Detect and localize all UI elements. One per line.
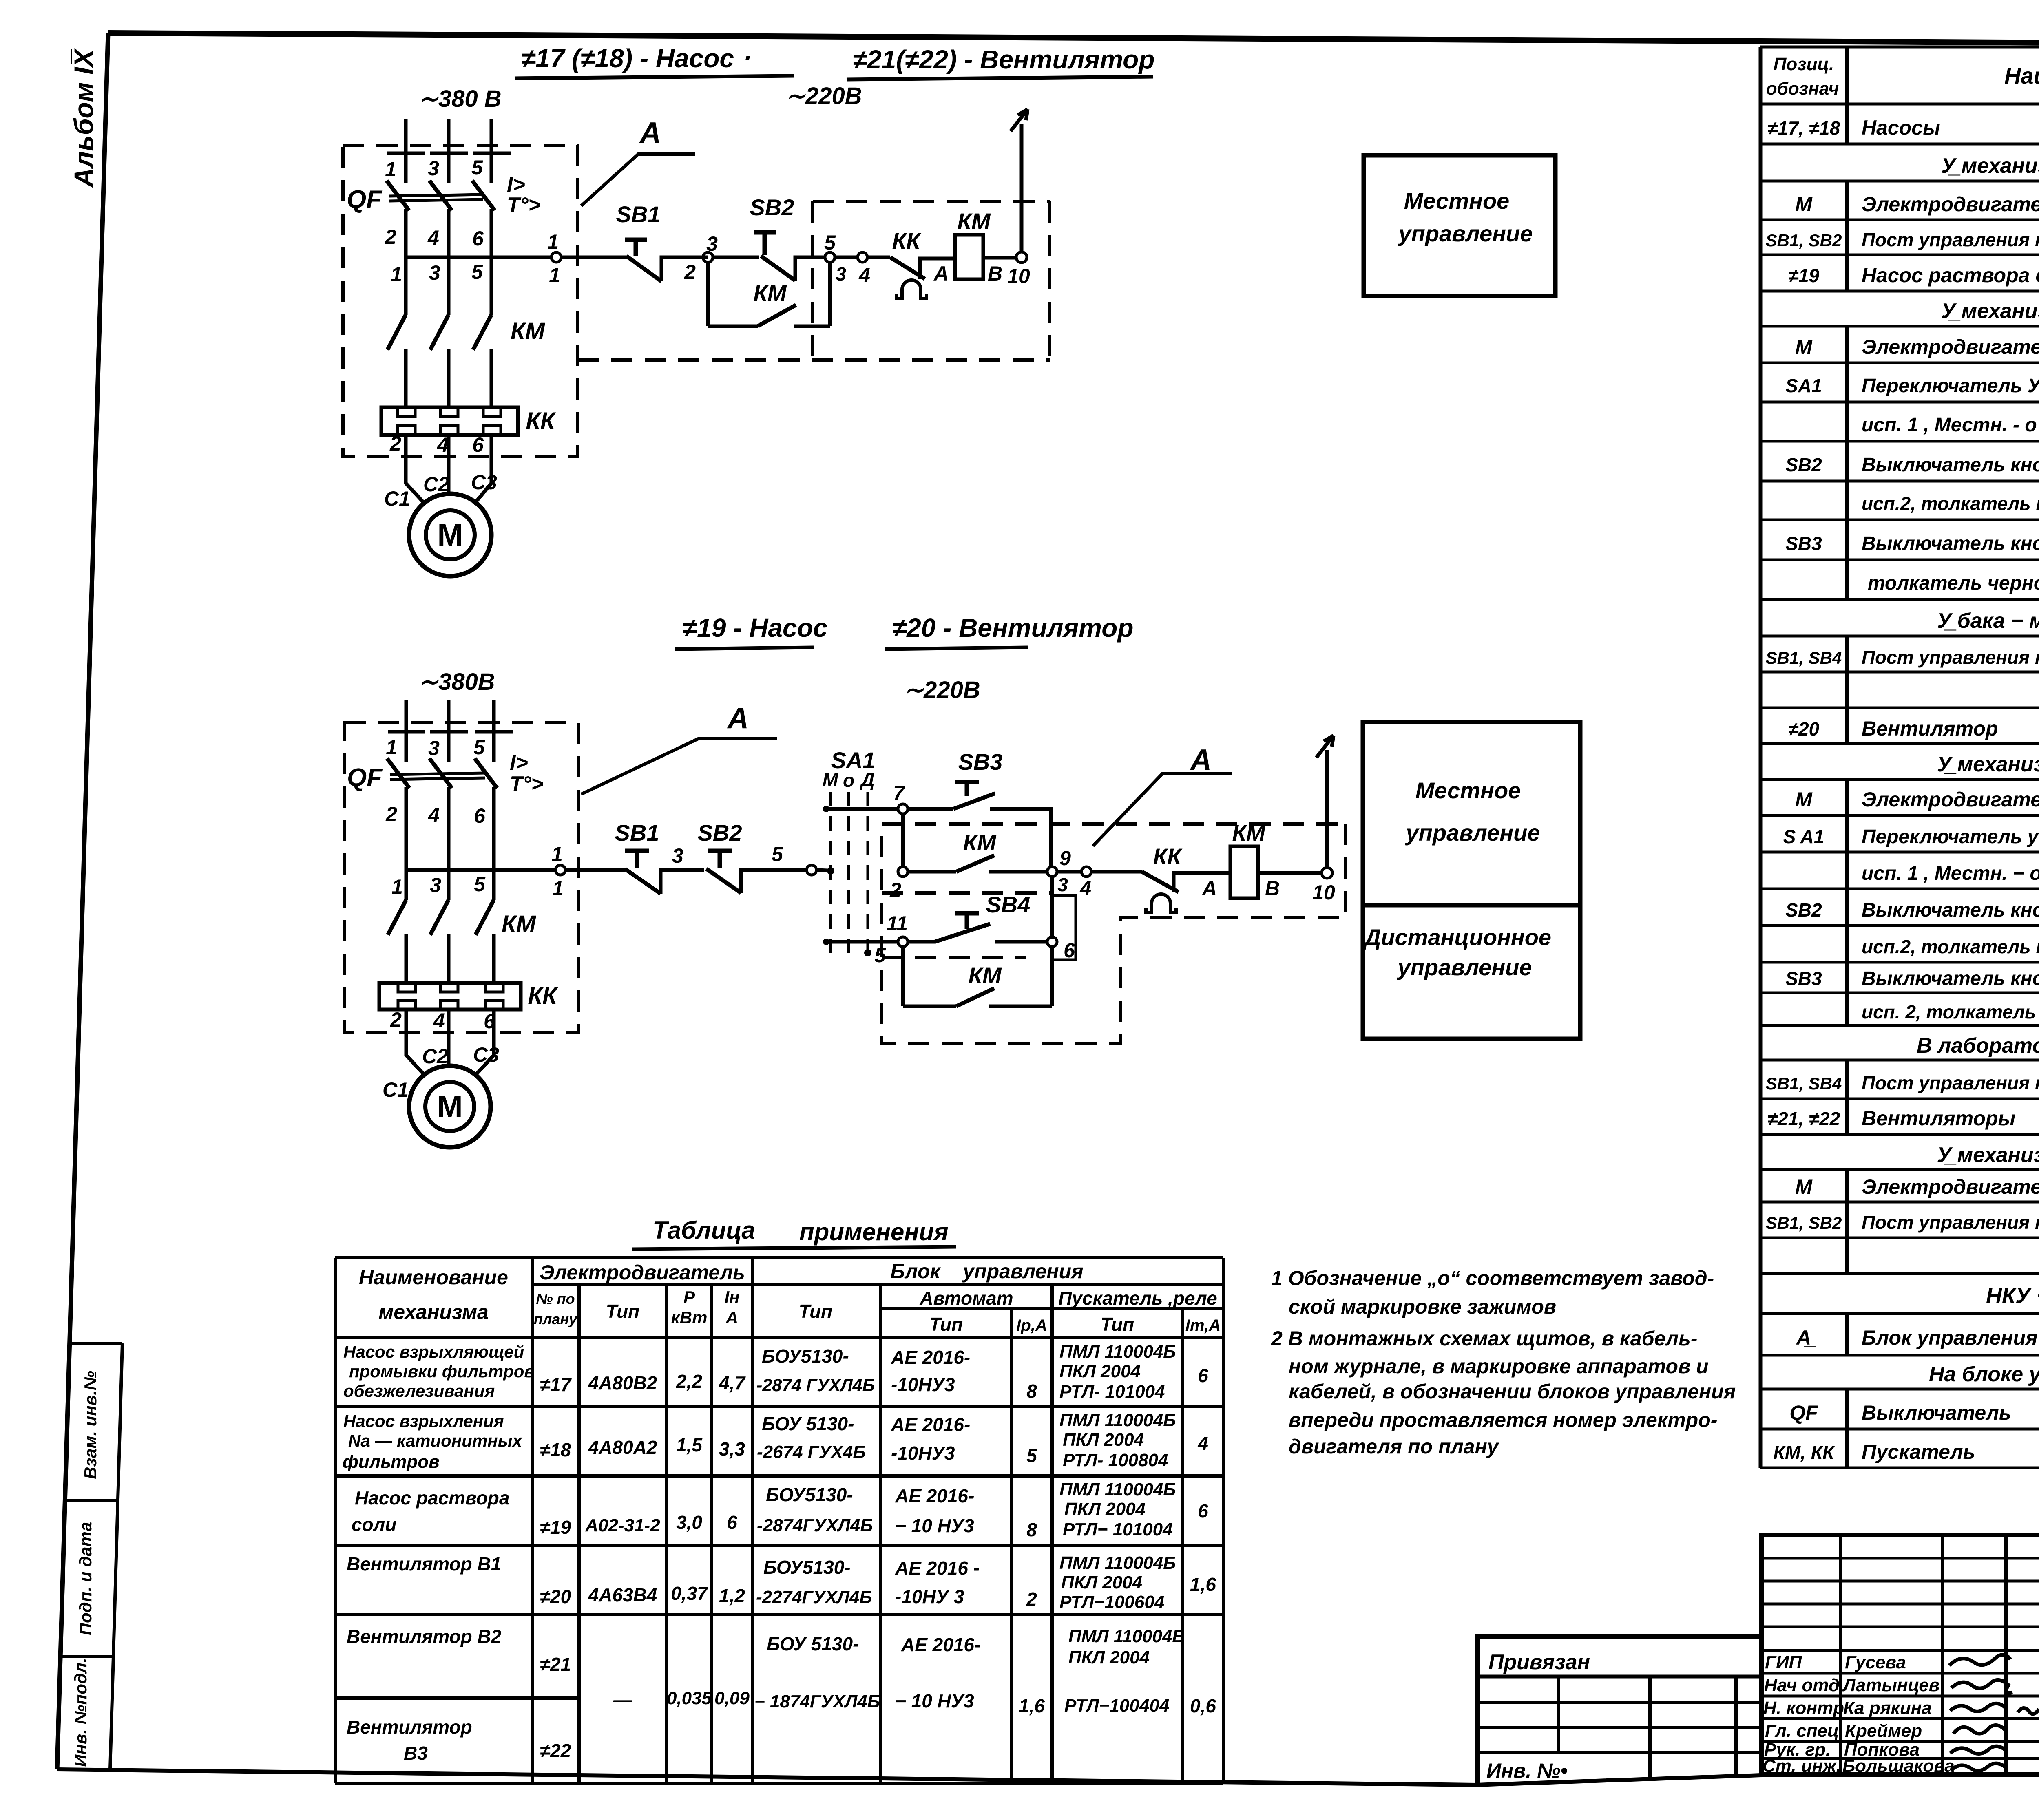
svg-text:3,3: 3,3 [719, 1438, 745, 1460]
svg-text:Пускатель: Пускатель [1862, 1440, 1975, 1463]
svg-text:5: 5 [1026, 1445, 1037, 1466]
svg-text:SB1, SВ2: SB1, SВ2 [1766, 1213, 1842, 1232]
circuit 2 motor lead C1 [406, 1009, 425, 1076]
circuit 2 thermal contact KK blade [1142, 872, 1179, 892]
circuit 2 title left underline [675, 647, 814, 649]
svg-text:У̲ механизма: У̲ механизма [1941, 154, 2039, 178]
circuit 2 contactor KM main contact L2 [430, 900, 449, 935]
svg-text:SB1, SB2: SB1, SB2 [1766, 231, 1842, 250]
circuit 2 node 4 circle [1081, 867, 1091, 877]
svg-text:А: А [1201, 877, 1217, 900]
circuit 1 contactor KM main contact L1 [387, 315, 406, 350]
privyazan first row line [1477, 1675, 1762, 1679]
svg-text:управление: управление [1398, 221, 1533, 246]
circuit 1 thermal contact KK release hook [896, 280, 927, 298]
svg-text:≠19: ≠19 [540, 1517, 571, 1538]
circuit 1 block label A leader line [581, 154, 695, 206]
svg-text:Электродвигатель: Электродвигатель [1862, 1175, 2039, 1198]
svg-text:2,2: 2,2 [676, 1371, 702, 1392]
svg-text:3: 3 [672, 844, 683, 867]
motor M2 inner circle [425, 1082, 474, 1131]
svg-text:SB2: SB2 [698, 820, 742, 846]
svg-text:SB1, SB4: SB1, SB4 [1766, 1074, 1842, 1093]
svg-text:фильтров: фильтров [343, 1452, 440, 1472]
circuit 1 neutral symbol N [1011, 109, 1028, 131]
svg-text:4: 4 [433, 1009, 445, 1032]
svg-text:Iр,А: Iр,А [1016, 1316, 1047, 1334]
circuit 1 node 4 circle [858, 252, 867, 262]
circuit 1 local control box [1364, 155, 1555, 296]
circuit 1 contactor KM main contact L2 [430, 315, 449, 350]
svg-text:≠20 - Вентилятор: ≠20 - Вентилятор [892, 613, 1133, 643]
svg-text:Таблица: Таблица [652, 1217, 755, 1244]
circuit 2 wire SB3 to corner [990, 809, 1051, 867]
svg-text:4А63В4: 4А63В4 [588, 1584, 657, 1606]
circuit 1 wire node5 to node4 [835, 256, 858, 259]
circuit 2 vertical bus node9 to node6 [1050, 877, 1054, 939]
svg-text:SB3: SB3 [958, 749, 1003, 775]
svg-text:КК: КК [1153, 844, 1183, 869]
svg-text:1,2: 1,2 [719, 1585, 745, 1606]
circuit 2 supply tap tick L2 [430, 730, 468, 734]
svg-text:исп. 1 , Местн. − о − Дист.: исп. 1 , Местн. − о − Дист. ” [1862, 863, 2039, 884]
svg-text:4А80А2: 4А80А2 [588, 1437, 657, 1458]
left column top divider [71, 1342, 122, 1345]
svg-text:Блок управления: Блок управления [1862, 1326, 2038, 1349]
svg-text:КМ: КМ [957, 208, 991, 234]
circuit 1 wire node1 to SB1 [561, 256, 628, 259]
circuit 2 motor lead C2 [447, 1009, 451, 1066]
svg-text:1,6: 1,6 [1190, 1574, 1216, 1595]
svg-text:10: 10 [1007, 265, 1030, 287]
svg-text:I>: I> [510, 751, 528, 775]
svg-text:Большакова: Большакова [1842, 1756, 1955, 1776]
selector switch SA1 dashed line M [829, 792, 832, 960]
svg-text:БОУ 5130-: БОУ 5130- [767, 1633, 859, 1654]
drawing frame border bottom [57, 1769, 2039, 1785]
svg-text:Наименование: Наименование [2004, 63, 2039, 88]
svg-text:управление: управление [1397, 954, 1532, 980]
svg-text:≠17: ≠17 [540, 1374, 572, 1395]
svg-text:0,09: 0,09 [714, 1688, 750, 1708]
circuit 2 phase wire L3 lower [492, 934, 496, 983]
svg-text:0,6: 0,6 [1190, 1695, 1216, 1716]
svg-text:2: 2 [1026, 1588, 1037, 1610]
svg-text:РТЛ− 101004: РТЛ− 101004 [1063, 1520, 1173, 1539]
svg-text:ном журнале, в маркировке ап: ном журнале, в маркировке аппаратов и [1289, 1355, 1709, 1378]
svg-text:В: В [988, 262, 1002, 285]
svg-text:В: В [1265, 877, 1280, 900]
circuit 2 node 1 circle [555, 865, 565, 875]
svg-text:ПМЛ 110004Б: ПМЛ 110004Б [1059, 1342, 1176, 1362]
svg-text:SB1: SB1 [616, 201, 661, 227]
svg-text:4: 4 [428, 804, 440, 826]
circuit 2 wire node7 to SB3 [908, 807, 953, 811]
svg-text:ПМЛ 110004Б: ПМЛ 110004Б [1068, 1626, 1185, 1646]
svg-text:SB2: SB2 [1785, 454, 1822, 475]
circuit 2 node 10 circle [1322, 868, 1332, 878]
svg-text:У̲ бака − мерника: У̲ бака − мерника [1937, 609, 2039, 633]
svg-text:БОУ5130-: БОУ5130- [766, 1484, 853, 1505]
svg-text:3: 3 [428, 157, 439, 180]
svg-text:Инв. №•: Инв. №• [1486, 1759, 1568, 1782]
circuit 1 control dashed connector [578, 358, 1050, 362]
svg-text:3,0: 3,0 [676, 1512, 702, 1533]
circuit 1 phase wire L2 top [447, 119, 451, 183]
privyazan grid verticals [1558, 1676, 1736, 1779]
circuit 2 button SB1 actuator [625, 851, 649, 868]
svg-text:Выключатель кнопочный̄ КЕ: Выключатель кнопочный̄ КЕ 081 [1862, 454, 2039, 476]
svg-text:РТЛ−100604: РТЛ−100604 [1059, 1592, 1164, 1612]
circuit 2 node 11 circle [898, 937, 908, 947]
svg-text:планy: планy [534, 1311, 578, 1327]
svg-text:№ по: № по [536, 1290, 575, 1307]
circuit 2 KM latch lower branch up to node6 [1050, 947, 1054, 1006]
svg-text:Автомат: Автомат [919, 1288, 1013, 1309]
svg-text:АЕ 2016-: АЕ 2016- [901, 1634, 980, 1655]
svg-text:АЕ 2016 -: АЕ 2016 - [895, 1557, 980, 1579]
svg-text:БОУ5130-: БОУ5130- [762, 1345, 849, 1367]
circuit 1 node 5 circle [825, 252, 835, 262]
svg-text:Электродвигатель: Электродвигатель [1862, 788, 2039, 811]
svg-text:Вентилятор: Вентилятор [347, 1716, 472, 1738]
circuit 2 node 7 circle [898, 804, 908, 814]
svg-text:кВт: кВт [671, 1308, 708, 1327]
circuit 2 KM latch lower blade [956, 988, 994, 1006]
svg-text:КМ: КМ [511, 318, 546, 345]
button SB3 make contact blade [953, 793, 995, 809]
svg-text:управление: управление [1405, 820, 1540, 846]
svg-text:8: 8 [1026, 1519, 1037, 1540]
svg-text:М: М [1795, 788, 1813, 811]
left column divider 2 [62, 1655, 113, 1658]
svg-text:Р: Р [683, 1288, 695, 1307]
svg-text:3: 3 [429, 261, 440, 284]
svg-text:≠22: ≠22 [540, 1740, 571, 1761]
circuit 2 KM latch lower wire right [989, 1005, 1052, 1008]
circuit 1 control dashed box right [1048, 201, 1051, 360]
circuit 1 motor lead C1 [406, 435, 425, 504]
circuit 2 phase wire L2 top [447, 700, 451, 762]
circuit 1 thermal relay KK heater notches [398, 407, 501, 435]
svg-text:Ст. инж.: Ст. инж. [1763, 1756, 1841, 1776]
circuit 2 wire into SA1 [816, 870, 828, 870]
svg-text:Вентилятор В1: Вентилятор В1 [347, 1553, 501, 1575]
circuit 1 phase wire L1 middle [404, 209, 408, 315]
circuit 2 control tap wire to node 1 [406, 868, 555, 872]
svg-text:C1: C1 [383, 1078, 409, 1101]
circuit 2 wire node9 to node4 [1057, 870, 1081, 874]
svg-text:Д: Д [859, 769, 874, 790]
svg-text:ПМЛ 110004Б: ПМЛ 110004Б [1059, 1553, 1176, 1573]
svg-text:Пускатель ,реле: Пускатель ,реле [1058, 1288, 1217, 1309]
svg-text:Нач отд: Нач отд [1764, 1675, 1840, 1695]
svg-text:11: 11 [887, 912, 908, 935]
circuit 1 control dashed box top [813, 200, 1050, 203]
svg-text:C1: C1 [384, 487, 410, 510]
circuit 2 button SB1 break contact blade [625, 869, 661, 894]
circuit 2 breaker QF blade L3 [475, 758, 497, 788]
svg-text:-10НУ3: -10НУ3 [891, 1442, 955, 1464]
svg-text:КМ: КМ [502, 911, 537, 937]
circuit 1 thermal relay KK heater box [381, 407, 518, 435]
circuit 2 title right underline [885, 647, 1028, 649]
circuit 2 phase wire L1 top [405, 700, 408, 762]
svg-text:-2274ГУХЛ4Б: -2274ГУХЛ4Б [756, 1587, 872, 1607]
svg-text:4: 4 [1197, 1433, 1208, 1454]
svg-text:НКУ − щит 5 Щ: НКУ − щит 5 Щ [1986, 1283, 2039, 1308]
svg-text:ПКЛ 2004: ПКЛ 2004 [1063, 1430, 1144, 1450]
svg-text:-2874 ГУХЛ4Б: -2874 ГУХЛ4Б [756, 1376, 875, 1395]
svg-text:М: М [1795, 1175, 1813, 1198]
svg-text:Выключатель кнопочный КЕ: Выключатель кнопочный КЕ 811 [1862, 968, 2039, 990]
svg-text:Инв. №подл.: Инв. №подл. [71, 1658, 90, 1767]
svg-text:0,37: 0,37 [671, 1583, 708, 1604]
svg-text:Вентилятор: Вентилятор [1862, 717, 1998, 740]
circuit 2 KM latch upper wire left [908, 870, 956, 874]
svg-text:M: M [437, 1089, 462, 1124]
svg-text:БОУ5130-: БОУ5130- [763, 1557, 851, 1578]
svg-text:Гусева: Гусева [1845, 1652, 1906, 1672]
svg-text:впереди проставляется номер: впереди проставляется номер электро- [1289, 1409, 1717, 1431]
svg-text:6: 6 [1198, 1500, 1208, 1522]
svg-text:10: 10 [1312, 881, 1335, 904]
circuit 2 button SB2 wire jog [741, 870, 807, 893]
svg-text:Н. контр: Н. контр [1763, 1698, 1844, 1718]
svg-text:М: М [1795, 336, 1813, 358]
circuit 2 remote rail from SA1 [825, 940, 898, 944]
svg-text:5: 5 [473, 736, 485, 759]
svg-text:Насос взрыхляющей: Насос взрыхляющей [343, 1342, 524, 1361]
circuit 1 wire coil to node 10 [983, 256, 1017, 260]
circuit 1 contactor KM latch branch up to node5 [828, 262, 832, 326]
circuit 1 wire KK to KM coil [920, 258, 955, 279]
circuit 2 block label A leader line (right) [1093, 774, 1232, 846]
circuit 2 inner dashed divider lower [882, 956, 1026, 959]
circuit 2 thermal relay KK heater box [379, 983, 521, 1009]
circuit 1 breaker QF blade L3 [472, 181, 495, 210]
svg-text:Ка рякина: Ка рякина [1843, 1698, 1932, 1718]
circuit 1 phase wire L2 middle [447, 209, 451, 315]
svg-text:≠21(≠22) - Вентилятор: ≠21(≠22) - Вентилятор [853, 45, 1154, 74]
circuit 2 motor lead C3 [475, 1009, 494, 1076]
circuit 1 phase wire L1 lower [404, 349, 408, 407]
circuit 2 contactor KM main contact L1 [388, 900, 406, 935]
svg-text:о: о [843, 770, 854, 791]
privyazan box outer [1477, 1637, 1762, 1786]
svg-text:АЕ 2016-: АЕ 2016- [895, 1485, 974, 1506]
svg-text:РТЛ- 101004: РТЛ- 101004 [1059, 1382, 1165, 1402]
svg-text:C3: C3 [473, 1043, 499, 1066]
circuit 2 wire KK to KM coil [1174, 873, 1230, 892]
circuit 2 wire coil to node 10 [1258, 871, 1322, 875]
svg-text:6: 6 [727, 1512, 737, 1533]
drawing frame border left [57, 33, 108, 1769]
circuit 1 node 3 circle [703, 252, 713, 262]
svg-text:SB3: SB3 [1785, 533, 1822, 554]
circuit 2 breaker QF crossbar [390, 773, 485, 775]
svg-text:8: 8 [1026, 1380, 1037, 1402]
circuit 2 wire node11 to SB4 [908, 940, 935, 944]
svg-text:1: 1 [552, 877, 564, 900]
svg-text:5: 5 [471, 156, 483, 179]
svg-text:РТЛ- 100804: РТЛ- 100804 [1063, 1450, 1168, 1470]
svg-text:QF: QF [347, 186, 383, 214]
circuit 1 contactor KM latch branch down from node3 [706, 262, 710, 326]
svg-text:Привязан: Привязан [1488, 1650, 1590, 1674]
svg-text:2: 2 [390, 1008, 402, 1031]
circuit 2 KM latch lower branch down [901, 947, 905, 1006]
button SB4 actuator [955, 913, 979, 929]
svg-text:3: 3 [1057, 874, 1068, 895]
specification table left edge [1759, 47, 1763, 1468]
circuit 1 phase wire L2 lower [447, 349, 451, 407]
circuit 2 inner dashed divider upper [882, 891, 1052, 895]
circuit 2 button SB1 wire jog [661, 870, 704, 894]
svg-text:АЕ 2016-: АЕ 2016- [891, 1414, 970, 1435]
svg-text:Электродвигатель: Электродвигатель [540, 1261, 745, 1284]
svg-text:Тип: Тип [929, 1314, 963, 1335]
svg-text:КМ: КМ [1232, 820, 1265, 846]
circuit 1 thermal contact KK blade [890, 257, 925, 279]
svg-text:2: 2 [684, 261, 696, 283]
title block signatures squiggles [1949, 1655, 2039, 1771]
circuit 1 thermal contact KK wire from node4 [867, 256, 890, 259]
circuit 2 local rail end tick [823, 806, 829, 812]
circuit 1 supply tap tick L1 [387, 152, 425, 155]
circuit 1 wire node3 to SB2 [713, 256, 759, 259]
svg-text:∼380В: ∼380В [418, 669, 495, 695]
svg-text:толкатель черного цвета ,: толкатель черного цвета , пуск ” [1868, 572, 2039, 594]
svg-text:Гл. спец.: Гл. спец. [1765, 1721, 1844, 1741]
svg-text:Дистанционное: Дистанционное [1363, 924, 1551, 950]
svg-text:У̲ механизма: У̲ механизма [1941, 299, 2039, 323]
svg-text:Взам. инв.№: Взам. инв.№ [81, 1371, 100, 1479]
svg-text:≠21: ≠21 [540, 1654, 571, 1675]
circuit 1 contactor KM latch wire bottom right [794, 325, 830, 328]
svg-text:Тип: Тип [606, 1301, 640, 1322]
svg-text:механизма: механизма [378, 1301, 488, 1323]
svg-text:QF: QF [347, 764, 383, 792]
svg-text:БОУ 5130-: БОУ 5130- [762, 1413, 854, 1434]
circuit 1 neutral wire N [1020, 124, 1024, 252]
svg-text:5: 5 [824, 231, 836, 254]
circuit 1 node 10 circle [1016, 252, 1027, 263]
circuit 1 node 1 circle [551, 252, 561, 262]
circuit 2 neutral wire N [1325, 750, 1329, 868]
svg-text:Насос взрыхления: Насос взрыхления [343, 1411, 504, 1431]
circuit 2 node 6 circle [1047, 937, 1057, 947]
circuit 2 thermal contact KK release hook [1146, 894, 1176, 912]
svg-text:А: А [1190, 744, 1212, 776]
circuit 2 KM latch lower wire left [903, 1005, 956, 1008]
svg-text:Местное: Местное [1404, 188, 1510, 214]
svg-text:М: М [823, 769, 839, 790]
svg-text:2: 2 [389, 432, 401, 455]
svg-text:Латынцев: Латынцев [1842, 1675, 1939, 1695]
circuit 2 button SB2 actuator [708, 851, 732, 868]
contactor coil KM circuit 2 [1230, 846, 1258, 898]
svg-text:Подп. и дата: Подп. и дата [76, 1522, 95, 1635]
circuit 1 title right underline [847, 77, 1153, 80]
svg-text:А: А [727, 702, 749, 735]
svg-text:4: 4 [1079, 877, 1091, 900]
svg-text:1: 1 [385, 158, 396, 181]
svg-text:Пост управления кнопочный̄: Пост управления кнопочный̄ ПКЕ722-2У3 [1862, 1072, 2039, 1093]
circuit 2 neutral symbol N [1316, 736, 1334, 758]
circuit 1 phase wire L3 middle [490, 209, 493, 315]
svg-text:Блок управления: Блок управления [890, 1260, 1083, 1283]
circuit 2 SA1 position dot on wire [827, 867, 834, 875]
svg-text:Вентиляторы: Вентиляторы [1862, 1107, 2015, 1130]
left column inner vertical line [110, 1343, 122, 1769]
svg-text:S A1: S A1 [1783, 826, 1824, 847]
circuit 2 remote rail end tick [823, 939, 829, 945]
svg-text:5: 5 [471, 261, 483, 283]
circuit 1 button SB1 actuator [625, 240, 647, 256]
button SB3 actuator [955, 782, 979, 796]
circuit 1 breaker QF crossbar [389, 194, 483, 196]
circuit 1 button SB2 actuator [754, 232, 776, 255]
svg-text:Переключатель Управления: Переключатель Управления ПЕ 081 [1862, 375, 2039, 397]
svg-text:Насосы: Насосы [1862, 116, 1940, 139]
svg-text:Тип: Тип [799, 1301, 833, 1322]
svg-text:∼380 В: ∼380 В [418, 86, 501, 112]
svg-text:− 10 НУ3: − 10 НУ3 [895, 1515, 974, 1536]
svg-text:SB2: SB2 [1785, 899, 1822, 921]
svg-text:ской маркировке зажимов: ской маркировке зажимов [1289, 1295, 1556, 1318]
circuit 1 control tap wire to node 1 [406, 256, 552, 259]
svg-text:исп.2, толкатель красного цве: исп.2, толкатель красного цвета , стоп” [1862, 493, 2039, 514]
svg-text:-2674 ГУХ4Б: -2674 ГУХ4Б [757, 1442, 866, 1462]
svg-text:Iт,А: Iт,А [1185, 1316, 1221, 1334]
circuit 1 contactor KM main contact L3 [473, 315, 491, 350]
svg-text:SB2: SB2 [750, 194, 794, 220]
svg-text:Выключатель: Выключатель [1862, 1401, 2011, 1424]
svg-text:SB1, SB4: SB1, SB4 [1766, 648, 1842, 667]
svg-text:1,5: 1,5 [676, 1434, 703, 1456]
circuit 2 thermal contact KK wire from node4 [1091, 870, 1142, 874]
svg-text:4,7: 4,7 [719, 1372, 746, 1394]
svg-text:Пост управления кнопочный̄: Пост управления кнопочный̄ ПКЕ722-2У2 [1862, 229, 2039, 250]
circuit 2 control unit dashed box A [345, 723, 579, 1033]
svg-text:1 Обозначение „о“ соответствуе: 1 Обозначение „о“ соответствует завод- [1271, 1267, 1714, 1290]
svg-text:1: 1 [549, 264, 560, 287]
svg-text:ПМЛ 110004Б: ПМЛ 110004Б [1059, 1480, 1176, 1500]
svg-text:SB1: SB1 [615, 820, 659, 846]
svg-text:-10НУ 3: -10НУ 3 [895, 1586, 964, 1607]
svg-text:SB3: SB3 [1785, 968, 1822, 989]
svg-text:6: 6 [1198, 1365, 1208, 1386]
svg-text:5: 5 [474, 873, 486, 896]
circuit 1 phase wire L3 top [490, 119, 493, 183]
title block outer box [1762, 1535, 2039, 1774]
specification table column line 1 segments [1845, 47, 1849, 1468]
svg-text:Пост управления кнопочный̄: Пост управления кнопочный̄ ПКЕ 722-2У3 [1862, 1212, 2039, 1233]
svg-text:ПМЛ 110004Б: ПМЛ 110004Б [1059, 1410, 1176, 1430]
svg-text:КМ: КМ [963, 830, 996, 855]
application table grid horizontals [335, 1258, 1223, 1783]
svg-text:≠19 - Насос: ≠19 - Насос [683, 613, 827, 643]
svg-text:Насос раствора: Насос раствора [355, 1487, 509, 1509]
title block small grid rows top-left [1762, 1558, 2039, 1627]
circuit 2 KM latch upper blade [956, 855, 994, 872]
svg-text:0,035: 0,035 [667, 1688, 712, 1708]
svg-text:В лаборатории ВПУ̲: В лаборатории ВПУ̲ [1917, 1034, 2039, 1058]
svg-text:∼220В: ∼220В [785, 83, 862, 109]
svg-text:Местное: Местное [1415, 777, 1521, 803]
circuit 2 phase wire L2 lower [447, 934, 451, 983]
